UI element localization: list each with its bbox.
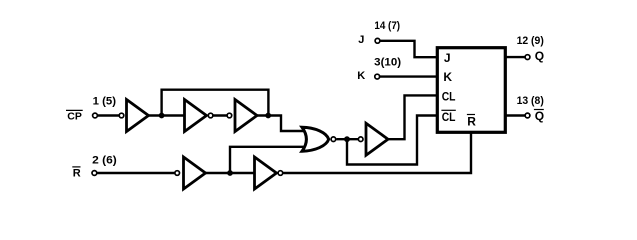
svg-text:14 (7): 14 (7)	[374, 20, 400, 32]
inverter G3 input bubble	[227, 113, 232, 118]
svg-text:Q: Q	[535, 109, 544, 123]
wire G3 output jog down to NOR top input	[256, 116, 306, 132]
svg-text:K: K	[443, 70, 452, 84]
label CL-bar pin	[441, 110, 455, 124]
wire J input jog to J pin	[378, 41, 438, 57]
inverter G4 input bubble	[175, 171, 180, 176]
wire CP input to G1	[95, 114, 120, 116]
svg-text:K: K	[357, 70, 365, 82]
inverter G4	[184, 157, 206, 189]
terminal CP	[93, 113, 98, 118]
node B junction dot	[265, 113, 271, 119]
terminal Qbar	[525, 113, 530, 118]
wire node C to CL-bar pin	[347, 116, 437, 165]
terminal K	[375, 74, 380, 79]
inverter G5 input bubble	[358, 137, 363, 142]
svg-text:R: R	[467, 114, 476, 128]
node C junction dot	[344, 136, 350, 142]
svg-text:J: J	[358, 34, 364, 46]
inverter G6 output bubble	[278, 171, 283, 176]
inverter G2	[185, 100, 207, 132]
wire G6 output R line into flip-flop bottom	[283, 132, 472, 173]
svg-text:13 (8): 13 (8)	[517, 95, 545, 107]
terminal R	[92, 171, 97, 176]
wire feedback loop node A to node B	[162, 90, 269, 116]
wire Q-bar output	[505, 114, 527, 116]
wire G5 output to CL pin	[386, 95, 437, 139]
label Q-bar output	[534, 109, 544, 123]
svg-text:3(10): 3(10)	[374, 57, 401, 69]
wire R input to G4	[94, 172, 175, 174]
wire K input to K pin	[377, 75, 437, 77]
inverter G6	[255, 157, 277, 189]
wire Q output	[505, 56, 527, 58]
label R-bar input	[72, 167, 81, 180]
NOR gate G7	[302, 127, 329, 151]
label R-bar internal	[467, 114, 476, 128]
svg-text:R: R	[73, 168, 81, 180]
wire G2 output to G3 input	[211, 114, 230, 116]
wire node D riser to NOR bottom input	[230, 147, 306, 173]
svg-text:CP: CP	[67, 111, 82, 123]
inverter G1 input bubble	[119, 113, 124, 118]
svg-text:J: J	[444, 51, 451, 65]
wire NOR output to node C and G5 input	[337, 138, 359, 140]
inverter G2 output bubble	[208, 113, 213, 118]
inverter G1	[127, 100, 149, 132]
terminal Q	[525, 55, 530, 60]
svg-text:CL: CL	[442, 110, 456, 124]
flip-flop U1 box	[437, 48, 505, 133]
wire G4 output run through node D	[204, 172, 257, 174]
NOR output bubble	[331, 137, 336, 142]
inverter G5	[366, 123, 388, 155]
svg-text:1 (5): 1 (5)	[93, 96, 117, 108]
label CP-bar input	[66, 110, 83, 122]
node D junction dot	[227, 170, 233, 176]
svg-text:CL: CL	[442, 89, 456, 103]
inverter G3	[235, 100, 257, 132]
svg-text:Q: Q	[535, 49, 544, 63]
svg-text:12 (9): 12 (9)	[517, 35, 545, 47]
terminal J	[375, 38, 380, 43]
node A junction dot	[159, 113, 165, 119]
svg-text:2 (6): 2 (6)	[92, 155, 117, 167]
wire G1 output run through node A	[148, 114, 185, 116]
